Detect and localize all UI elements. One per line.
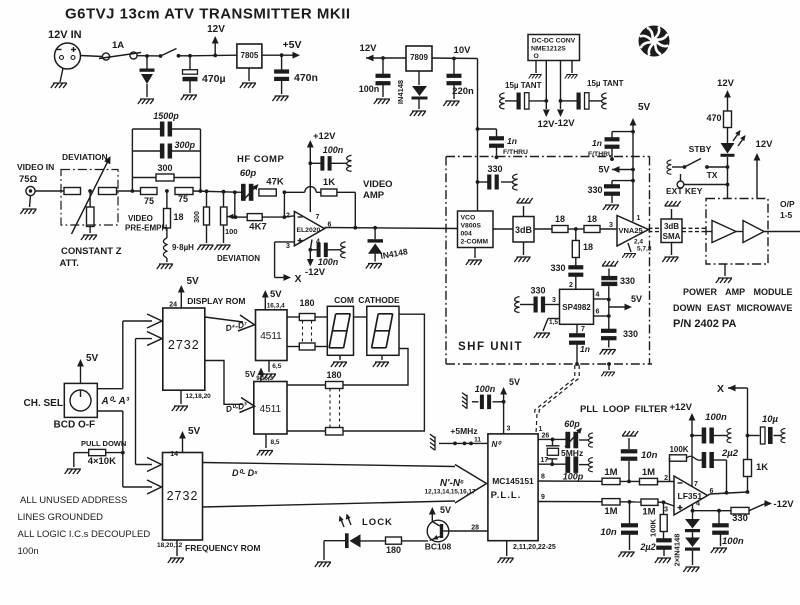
capacitor 220n <box>453 59 455 75</box>
oscillator module VCO V800S <box>458 211 494 248</box>
DC-DC +12V output pin <box>545 61 547 110</box>
svg-text:4511: 4511 <box>260 404 282 415</box>
fuse F1 1A <box>102 53 109 60</box>
svg-text:3dB: 3dB <box>515 225 533 235</box>
svg-text:+5MHz: +5MHz <box>450 426 477 436</box>
svg-text:4: 4 <box>696 501 700 508</box>
diode 1N4148 below 7809 <box>418 71 420 85</box>
inductor 9.8uH <box>166 228 168 238</box>
svg-text:3: 3 <box>664 507 668 514</box>
node after switch <box>188 54 192 58</box>
svg-text:5V: 5V <box>188 426 201 437</box>
svg-text:100: 100 <box>225 227 238 236</box>
supply arrow 5V 4511 bottom <box>260 370 262 382</box>
svg-text:004: 004 <box>461 231 473 238</box>
EXT KEY connector <box>677 181 684 188</box>
capacitor 2u2 feedback <box>702 452 707 468</box>
wire 7805 output +5V arrow <box>262 54 296 56</box>
svg-text:D⁰- D⁵: D⁰- D⁵ <box>232 468 258 478</box>
svg-text:330: 330 <box>550 263 565 273</box>
capacitor 100n output <box>693 510 720 512</box>
decoder U9 4511 bottom <box>254 382 287 435</box>
svg-text:100n: 100n <box>705 412 727 423</box>
ground below 7805 <box>248 68 250 81</box>
svg-text:O: O <box>534 53 539 60</box>
wire to HF comp node <box>199 189 203 193</box>
DC-DC converter NME1212S <box>528 35 580 61</box>
SP4982 pin 1,5 ground <box>548 318 560 320</box>
svg-text:1M: 1M <box>642 507 655 518</box>
svg-text:7809: 7809 <box>410 53 428 62</box>
svg-text:47K: 47K <box>266 177 284 188</box>
LED transmit indicator <box>727 128 729 144</box>
svg-text:DISPLAY ROM: DISPLAY ROM <box>187 296 245 306</box>
SP4982 pin 4 wire <box>594 298 609 300</box>
node row2 <box>620 501 641 503</box>
segment bus dashed <box>302 321 304 344</box>
address chevron into freq ROM top <box>136 464 153 466</box>
svg-text:+12V: +12V <box>313 131 336 142</box>
svg-text:BCD O-F: BCD O-F <box>54 420 96 431</box>
svg-text:100p: 100p <box>563 472 584 482</box>
LF351 output wire <box>708 494 711 496</box>
resistor 47K <box>259 189 276 196</box>
resistor 470 <box>724 111 732 128</box>
svg-text:IN4148: IN4148 <box>396 80 405 104</box>
feedthrough capacitor 1n left <box>476 127 480 131</box>
svg-text:VCO: VCO <box>461 215 476 222</box>
svg-text:2-COMM: 2-COMM <box>461 239 489 246</box>
address bus vertical A <box>122 321 124 389</box>
channel selector switch BCD <box>64 383 97 417</box>
capacitor 10n to ground above <box>628 461 630 481</box>
svg-text:26: 26 <box>542 433 550 440</box>
wire and node <box>568 228 584 230</box>
svg-text:CH. SEL.: CH. SEL. <box>24 398 66 409</box>
svg-text:CATHODE: CATHODE <box>358 295 400 305</box>
svg-text:330: 330 <box>620 276 635 286</box>
node and resistor 18 shunt <box>165 189 169 193</box>
svg-text:17: 17 <box>541 457 549 464</box>
resistor 300 loop <box>132 177 156 179</box>
resistor 100K vertical <box>663 502 665 514</box>
svg-text:4×10K: 4×10K <box>88 456 116 467</box>
diode 1N4148 clamp <box>374 228 376 239</box>
resistor 18 shunt <box>575 229 577 241</box>
deviation adjust arrow <box>72 160 109 234</box>
pre-emphasis loop right riser <box>200 129 202 191</box>
svg-text:8,5: 8,5 <box>271 439 280 446</box>
svg-text:3: 3 <box>609 222 613 229</box>
wire amp interconnect <box>736 231 743 233</box>
svg-text:180: 180 <box>326 370 341 380</box>
wire to 7805 <box>190 54 237 57</box>
capacitor 330 VCO supply <box>476 180 480 184</box>
transistor Q1 BC108 <box>427 520 449 542</box>
power amp module enclosure <box>706 199 768 265</box>
ground 7seg 1 <box>339 355 341 360</box>
capacitor 100n loop filter <box>692 435 703 437</box>
pre-emphasis loop left riser <box>131 129 133 191</box>
svg-text:5V: 5V <box>638 102 651 113</box>
svg-text:PRE-EMPH: PRE-EMPH <box>125 224 167 233</box>
5V supply arrow top <box>632 121 634 170</box>
svg-text:15µ TANT: 15µ TANT <box>587 79 624 88</box>
svg-text:EXT KEY: EXT KEY <box>666 186 703 196</box>
svg-text:SMA: SMA <box>663 232 681 241</box>
decoder U8 4511 top <box>256 310 288 361</box>
wire to 7809 <box>383 57 406 59</box>
wire 10V down to SHF unit <box>477 59 479 212</box>
svg-text:5V: 5V <box>86 353 99 364</box>
svg-text:DOWN EAST MICROWAVE: DOWN EAST MICROWAVE <box>673 303 792 313</box>
svg-text:18: 18 <box>587 214 597 224</box>
svg-text:BC108: BC108 <box>425 542 452 552</box>
svg-text:300: 300 <box>194 211 201 223</box>
svg-text:100K: 100K <box>669 445 688 454</box>
svg-text:330: 330 <box>487 164 502 174</box>
wire 180 to BC108 base <box>402 540 429 542</box>
svg-text:DC-DC CONV: DC-DC CONV <box>532 38 576 45</box>
svg-text:7805: 7805 <box>241 51 259 60</box>
node row1 <box>620 480 640 482</box>
resistor 18 second <box>584 226 600 233</box>
svg-text:O/P: O/P <box>780 199 795 209</box>
connector J1 12V IN <box>55 43 81 69</box>
svg-text:G6TVJ 13cm ATV TRANSMITTER: G6TVJ 13cm ATV TRANSMITTER MKII <box>65 6 351 23</box>
wire J1 to fuse <box>81 56 103 57</box>
supply arrow 5V display ROM <box>180 288 182 308</box>
svg-text:4K7: 4K7 <box>249 222 266 233</box>
svg-text:-12V: -12V <box>305 267 326 278</box>
op-amp U12 LF351 <box>674 476 708 515</box>
svg-text:9: 9 <box>541 494 545 501</box>
capacitor 100n PLL supply <box>502 400 506 404</box>
ground below 3dB <box>523 242 525 255</box>
LF351 pin 4 wire <box>692 505 694 520</box>
ground above 3dB <box>523 206 525 217</box>
svg-text:100n: 100n <box>318 257 339 267</box>
svg-text:100n: 100n <box>323 145 344 155</box>
switch S1 <box>159 54 163 58</box>
supply arrow 5V 4511 top <box>264 293 266 310</box>
svg-text:12V: 12V <box>360 43 378 54</box>
resistor 330 to -12V <box>719 510 731 512</box>
regulator U3 7809 <box>406 46 432 71</box>
SP4982 pin 6 wire <box>594 315 609 317</box>
svg-text:5MHz: 5MHz <box>561 448 583 458</box>
prescaler U6 SP4982 <box>560 289 594 324</box>
feedthrough capacitor 1n right <box>631 130 635 134</box>
svg-text:X: X <box>295 273 302 285</box>
svg-text:12V IN: 12V IN <box>48 29 82 41</box>
svg-text:ALL UNUSED ADDRESS: ALL UNUSED ADDRESS <box>20 495 127 506</box>
bus wire D0-D3 to 4511 <box>205 361 243 405</box>
wire 7809 output 10V <box>432 57 478 60</box>
wire video in <box>35 190 64 192</box>
bus wire D4-D7 to 4511 <box>205 317 243 322</box>
svg-text:5V: 5V <box>187 276 200 287</box>
svg-text:11: 11 <box>474 437 481 444</box>
svg-text:9·8µH: 9·8µH <box>172 243 194 252</box>
resistor 1K loop filter <box>747 436 749 460</box>
amplifier stage 1 <box>712 221 736 243</box>
svg-text:60p: 60p <box>240 168 257 179</box>
wiper riser wire <box>234 192 236 217</box>
electrolytic capacitor 470u <box>189 56 191 70</box>
svg-text:MC145151: MC145151 <box>492 476 534 486</box>
svg-text:HF COMP: HF COMP <box>237 154 284 165</box>
wire to VNA25 pin 3 <box>600 228 617 230</box>
svg-text:2,11,20,22-25: 2,11,20,22-25 <box>513 544 556 551</box>
wire LED to node <box>727 157 729 199</box>
supply 5V to PLL pin 3 <box>503 390 505 434</box>
resistor 180 segment bottom row <box>287 346 299 348</box>
svg-text:75: 75 <box>144 196 154 206</box>
wire VCO to 3dB pad <box>493 228 513 230</box>
svg-text:100n: 100n <box>18 546 39 557</box>
resistor 180 lower bus top <box>287 384 326 386</box>
data bus wire N upper <box>203 463 456 467</box>
svg-text:1n: 1n <box>507 136 517 146</box>
svg-text:5V: 5V <box>509 377 520 387</box>
svg-text:100K: 100K <box>649 518 658 537</box>
svg-text:NME1212S: NME1212S <box>531 46 566 53</box>
svg-text:100n: 100n <box>475 384 496 394</box>
address bus vertical B <box>135 339 137 465</box>
ground below VCO <box>474 248 476 259</box>
resistor 180 lock <box>386 537 402 544</box>
address bus chevron into 2732 top <box>123 320 152 322</box>
ground above 3dB SMA <box>671 209 673 219</box>
wire between displays <box>354 316 367 318</box>
capacitor 330 bottom right of SP4982 <box>608 316 610 329</box>
VNA25 pin1 wire to 5V <box>632 170 634 222</box>
svg-text:100n: 100n <box>359 84 380 94</box>
feedback wire with hop <box>284 191 304 193</box>
svg-text:1500p: 1500p <box>153 111 179 121</box>
svg-text:100n: 100n <box>722 536 744 547</box>
svg-text:LINES GROUNDED: LINES GROUNDED <box>18 512 104 523</box>
svg-text:2,4: 2,4 <box>634 239 643 246</box>
coax link VNA25 to 3dB to PA <box>649 227 662 229</box>
wire RF output <box>764 231 800 233</box>
svg-text:X: X <box>717 383 724 395</box>
svg-text:PLL LOOP FILTER: PLL LOOP FILTER <box>580 404 667 415</box>
SHF unit enclosure <box>446 156 650 158</box>
svg-text:220n: 220n <box>452 86 474 97</box>
svg-text:470: 470 <box>706 113 721 123</box>
capacitor 100n on -12V <box>310 249 318 251</box>
data bus wire N lower <box>203 501 456 507</box>
capacitor 1500p <box>132 128 160 130</box>
svg-text:5,7,8: 5,7,8 <box>637 246 652 253</box>
ground below video connector <box>30 196 31 207</box>
resistor 75 att right <box>99 188 117 195</box>
svg-text:1M: 1M <box>604 506 617 517</box>
svg-text:12V: 12V <box>538 119 556 130</box>
svg-text:3: 3 <box>507 426 511 433</box>
svg-text:18: 18 <box>583 242 593 252</box>
svg-text:1K: 1K <box>756 462 768 473</box>
svg-text:2732: 2732 <box>167 489 199 503</box>
ground below J1 <box>60 69 63 83</box>
EL2020 pin 4 to -12V <box>310 240 312 250</box>
svg-text:1n: 1n <box>592 138 602 148</box>
svg-text:16,3,4: 16,3,4 <box>267 303 285 310</box>
svg-text:VIDEO: VIDEO <box>363 179 393 190</box>
svg-text:1n: 1n <box>580 344 590 354</box>
svg-text:10V: 10V <box>454 45 472 56</box>
resistor att shunt <box>89 191 91 207</box>
svg-text:1K: 1K <box>323 177 335 188</box>
wire EL2020 output to VCO <box>325 228 458 229</box>
resistor 180 lower bus bottom <box>287 430 326 432</box>
supply arrow 5V frequency ROM <box>182 434 184 453</box>
supply arrow -12V <box>309 250 311 263</box>
svg-text:+12V: +12V <box>670 402 693 413</box>
svg-text:3: 3 <box>286 243 290 250</box>
svg-text:VIDEO IN: VIDEO IN <box>17 162 54 172</box>
svg-text:FREQUENCY ROM: FREQUENCY ROM <box>185 543 260 553</box>
wire +12V to EL2020 pin 7 <box>309 163 311 212</box>
svg-text:COM: COM <box>334 295 354 305</box>
capacitor 330 below resistor 18 <box>575 258 577 267</box>
EPROM U7 2732 display ROM <box>163 308 205 390</box>
svg-text:4511: 4511 <box>260 331 282 342</box>
svg-text:POWER AMP MODULE: POWER AMP MODULE <box>683 287 793 297</box>
regulator U2 7805 <box>237 44 262 68</box>
svg-text:3: 3 <box>552 297 556 304</box>
svg-text:75Ω: 75Ω <box>19 174 38 185</box>
svg-text:330: 330 <box>587 185 602 195</box>
svg-text:2µ2: 2µ2 <box>639 542 655 552</box>
PLL pin 17 wire <box>538 463 566 465</box>
resistor 180 segment top row <box>287 316 299 318</box>
resistor 1K feedback <box>321 189 337 196</box>
svg-text:ALL LOGIC I.C.s DECOUPLED: ALL LOGIC I.C.s DECOUPLED <box>18 529 151 540</box>
svg-text:SP4982: SP4982 <box>562 303 591 312</box>
wire fuse to node <box>137 55 160 57</box>
svg-text:12,18,20: 12,18,20 <box>186 393 212 400</box>
svg-text:18,20,12: 18,20,12 <box>157 542 183 549</box>
trimmer capacitor 60p <box>565 432 570 449</box>
svg-text:1-5: 1-5 <box>780 210 793 220</box>
capacitor 300p <box>132 150 160 152</box>
feedback 100K <box>669 458 671 482</box>
7-segment display 1 <box>327 306 353 355</box>
svg-text:2: 2 <box>664 475 668 482</box>
svg-text:VNA25: VNA25 <box>619 226 643 235</box>
svg-text:5V: 5V <box>245 369 256 379</box>
svg-text:180: 180 <box>386 545 401 555</box>
svg-text:+5V: +5V <box>283 39 302 51</box>
wire BC108 to PLL pin 28 <box>448 530 488 532</box>
EPROM U10 2732 frequency ROM <box>163 453 203 541</box>
CH.SEL bus wires <box>97 388 123 390</box>
PLL pin 9 wire <box>538 501 602 503</box>
svg-text:470n: 470n <box>294 72 318 84</box>
svg-text:7: 7 <box>694 481 698 488</box>
resistor 1M row2 second <box>641 499 658 505</box>
resistor 75 series second <box>175 188 193 195</box>
svg-text:180: 180 <box>299 298 314 308</box>
svg-text:SHF UNIT: SHF UNIT <box>458 341 523 353</box>
DC-DC -12V output pin <box>560 61 562 110</box>
svg-text:P.L.L.: P.L.L. <box>491 490 522 501</box>
svg-text:ATT.: ATT. <box>60 258 79 269</box>
capacitor 470n <box>281 55 283 70</box>
resistor 1M row2 first <box>602 499 620 505</box>
svg-text:15µ TANT: 15µ TANT <box>505 81 542 90</box>
svg-text:1: 1 <box>637 215 641 222</box>
svg-text:STBY: STBY <box>689 144 712 154</box>
svg-text:330: 330 <box>732 513 748 524</box>
potentiometer 100 deviation <box>222 190 226 194</box>
svg-text:24: 24 <box>169 302 177 309</box>
address chevron into freq ROM bottom <box>123 486 152 488</box>
supply arrow 12V <box>214 39 216 55</box>
constant Z attenuator box <box>61 170 118 226</box>
fan icon <box>639 26 670 57</box>
svg-text:300: 300 <box>157 163 172 173</box>
electrolytic capacitor 10u <box>746 434 750 438</box>
svg-text:18: 18 <box>174 212 184 222</box>
svg-text:300p: 300p <box>175 140 196 150</box>
svg-text:10n: 10n <box>600 527 617 538</box>
wire to SP4982 pin 2 <box>575 277 577 290</box>
svg-text:-12V: -12V <box>555 118 576 129</box>
capacitor 100p <box>565 456 570 473</box>
svg-text:12V: 12V <box>756 139 774 150</box>
supply arrow 5V BC108 <box>431 510 433 522</box>
svg-text:DEVIATION: DEVIATION <box>62 152 108 162</box>
capacitor 10n row2 <box>629 502 631 524</box>
wire 3dB to resistor 18 <box>534 228 552 230</box>
svg-text:1M: 1M <box>642 467 655 478</box>
op-amp U1 EL2020 <box>294 211 324 245</box>
svg-text:14: 14 <box>170 451 178 458</box>
svg-text:CONSTANT Z: CONSTANT Z <box>61 246 122 257</box>
wire to EL2020 pin 2 <box>284 216 294 217</box>
capacitor 330 top right of SP4982 <box>601 276 617 280</box>
deviation wiper arrow <box>228 214 234 219</box>
resistor 4K7 <box>235 216 247 218</box>
svg-text:2: 2 <box>569 282 573 289</box>
svg-text:F/THRU: F/THRU <box>588 151 613 158</box>
N bus chevron into PLL <box>455 465 487 504</box>
svg-text:12V: 12V <box>207 24 225 35</box>
coax from SHF to PLL pin 1 <box>535 365 575 414</box>
svg-text:10n: 10n <box>641 450 658 461</box>
5V arrow right of SP4982 <box>609 306 629 308</box>
svg-text:EL2020: EL2020 <box>297 227 321 234</box>
svg-text:9,16,3: 9,16,3 <box>256 376 273 382</box>
svg-text:7: 7 <box>316 214 320 221</box>
svg-text:TX: TX <box>707 170 718 180</box>
svg-text:60p: 60p <box>564 419 580 429</box>
7-segment display 2 <box>367 306 399 355</box>
ground 7seg 2 <box>381 355 383 360</box>
svg-text:6: 6 <box>596 309 600 316</box>
svg-text:N'-N⁶: N'-N⁶ <box>440 478 464 489</box>
capacitor 1n at SP4982 pin 7 <box>576 324 578 333</box>
LED lock indicator <box>345 533 349 548</box>
svg-text:5V: 5V <box>440 505 451 515</box>
ground above 330 top right <box>602 261 618 266</box>
svg-text:5V: 5V <box>270 289 282 300</box>
svg-text:LF351: LF351 <box>678 491 703 501</box>
